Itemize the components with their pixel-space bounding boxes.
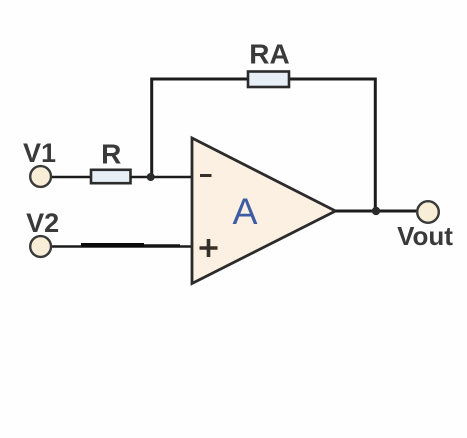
wire thick overlay segment on V2 wire [81,243,144,247]
op-amp inverting pin minus [200,174,212,177]
junction node at inverting input [147,173,155,181]
wire V2 to op-amp non-inverting input [50,245,193,247]
wire feedback left vertical [150,78,153,179]
op-amp U1 triangle [192,138,336,284]
wire feedback right vertical [374,78,377,213]
wire op-amp output to Vout [336,210,418,213]
wire resistor R to op-amp inverting input [131,176,194,179]
junction node at output [372,207,380,215]
svg-text:RA: RA [249,39,289,70]
svg-text:A: A [232,190,257,232]
terminal V2 [30,236,51,257]
op-amp non-inverting pin plus [200,239,218,257]
svg-text:V2: V2 [26,208,59,238]
svg-text:Vout: Vout [397,221,453,251]
svg-text:R: R [101,139,121,170]
svg-text:V1: V1 [23,138,56,168]
terminal Vout [417,201,439,223]
wire feedback top horizontal [151,78,377,81]
wire V1 to resistor R [50,176,92,179]
resistor RA [248,72,289,88]
resistor R [91,170,131,183]
terminal V1 [30,166,51,187]
